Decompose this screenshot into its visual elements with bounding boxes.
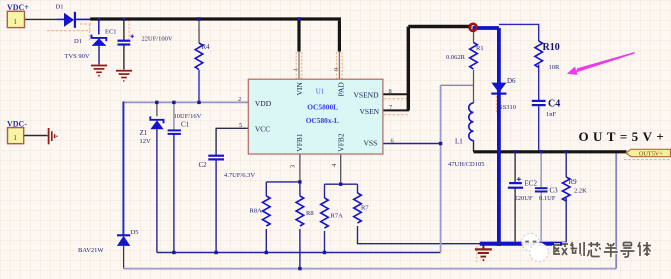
svg-text:10UF/16V: 10UF/16V [174, 113, 202, 120]
wire VSEND pin8 [383, 93, 409, 95]
svg-text:0.1UF: 0.1UF [539, 195, 556, 202]
wire thick drop to VIN pin [297, 19, 300, 52]
wire VFB1 pin stub [299, 154, 301, 182]
svg-text:VIN: VIN [295, 82, 304, 96]
wire port VDC+ to D1 [25, 18, 58, 20]
svg-text:VDC+: VDC+ [7, 3, 29, 12]
svg-text:3: 3 [290, 165, 297, 168]
capacitor EC1 [118, 40, 131, 42]
resistor R10 [535, 41, 543, 68]
svg-text:1: 1 [13, 133, 17, 142]
resistor R7 [354, 193, 362, 223]
svg-text:TVS 90V: TVS 90V [65, 53, 90, 60]
IC U1 body [248, 79, 383, 154]
ground TVS [91, 66, 107, 76]
svg-text:VFB1: VFB1 [295, 133, 304, 152]
wire thick blue gnd bus [480, 242, 567, 246]
wire VSEN pin7 [383, 109, 409, 111]
svg-text:VSS: VSS [364, 138, 378, 147]
inductor L1 [469, 103, 474, 141]
wire R7 top lead [357, 184, 359, 193]
svg-text:C1: C1 [181, 120, 190, 128]
resistor R9 [562, 177, 570, 201]
wire R9 bottom lead [565, 198, 567, 242]
compile mask dashes [47, 30, 91, 32]
wire C2 bottom lead [215, 159, 217, 252]
wire thick blue SW vertical [497, 28, 501, 244]
svg-text:9: 9 [333, 68, 340, 71]
wire R7A top lead [324, 184, 326, 198]
wire VCC pin5 to C2 [216, 128, 249, 155]
watermark text 欧创芯半导体 [554, 242, 651, 257]
resistor R7A [321, 198, 329, 228]
zener Z1 [150, 116, 163, 123]
wire EC2 bottom lead [514, 188, 516, 242]
diode D5 [117, 234, 130, 236]
diode D1 [64, 13, 74, 27]
wire feedback node1 horizontal [266, 181, 300, 183]
annotation arrow magenta [576, 52, 635, 73]
svg-text:C2: C2 [199, 161, 208, 169]
wire R4 bottom lead [198, 70, 200, 102]
svg-text:OUT=5V+: OUT=5V+ [579, 129, 669, 144]
svg-text:R1: R1 [476, 45, 484, 52]
svg-text:8: 8 [389, 88, 392, 95]
wire VDD rail horizontal [123, 101, 248, 103]
capacitor EC2 [509, 182, 522, 184]
svg-text:D1: D1 [56, 4, 64, 11]
svg-text:OC580x-L: OC580x-L [306, 116, 339, 125]
svg-text:D1: D1 [74, 38, 82, 45]
wire C4 bottom lead [538, 105, 540, 150]
wire L1 bottom lead [473, 141, 475, 152]
wire R8 bottom lead [299, 229, 301, 269]
wire R4 top lead [198, 21, 200, 43]
svg-text:VDD: VDD [255, 99, 272, 108]
wire R7 bottom lead to bus [358, 226, 481, 244]
svg-text:22UF/100V: 22UF/100V [142, 35, 173, 42]
wire OUT loop right vertical [615, 153, 617, 269]
wire TVS top lead [98, 21, 100, 35]
diode D6 [491, 83, 506, 93]
wire C1 top lead [173, 102, 175, 130]
svg-text:5: 5 [239, 122, 242, 129]
svg-text:U1: U1 [316, 87, 325, 95]
wire R7A bottom lead [324, 231, 326, 253]
svg-text:2: 2 [238, 96, 241, 103]
wire C3 top lead [540, 152, 542, 188]
wire VFB2 pin stub [340, 154, 342, 184]
svg-text:OUT5V+: OUT5V+ [639, 151, 663, 158]
wire thick top rail VIN [90, 17, 341, 20]
wire C3 bottom lead [540, 191, 542, 241]
wire thick blue donut to SW vertical [473, 26, 499, 30]
wire D1 cathode [76, 18, 91, 20]
svg-text:L1: L1 [455, 137, 463, 145]
wire EC1 bottom lead [123, 44, 125, 69]
svg-text:R10: R10 [543, 42, 560, 53]
svg-text:2.2K: 2.2K [574, 187, 587, 194]
port VDC+ [7, 11, 24, 27]
wire R1 bottom to VSS branch [441, 84, 474, 86]
wire R8A bottom lead [265, 229, 267, 253]
svg-text:47UH/CD105: 47UH/CD105 [448, 161, 484, 168]
svg-text:R7A: R7A [331, 212, 344, 219]
wire VSS pin6 [383, 143, 441, 145]
svg-text:R8A: R8A [250, 207, 263, 214]
wire R1 top lead [473, 31, 475, 43]
svg-text:4.7UF/6.3V: 4.7UF/6.3V [224, 172, 255, 179]
svg-text:SS310: SS310 [499, 104, 516, 111]
port VDC- [8, 128, 24, 144]
svg-text:0.062R: 0.062R [446, 54, 466, 61]
wire EC2 top lead [514, 152, 516, 183]
capacitor C2 [208, 155, 224, 157]
wire R8A top lead [265, 182, 267, 196]
wire C1 bottom lead [173, 134, 175, 253]
watermark logo circles [522, 234, 540, 252]
svg-text:D6: D6 [507, 77, 516, 85]
svg-text:R4: R4 [202, 43, 211, 51]
ground EC1 [116, 71, 132, 81]
svg-text:Z1: Z1 [140, 129, 148, 137]
wire VSS vertical lavender [440, 85, 442, 252]
wire thick OUT rail [474, 150, 627, 153]
wire OUT loop bottom [124, 268, 617, 270]
svg-text:VSEND: VSEND [354, 90, 380, 99]
wire thick vertical pin7-8 to top [407, 27, 410, 111]
port OUT5V+ [626, 149, 671, 156]
capacitor C3 [535, 187, 548, 189]
resistor R8 [296, 196, 304, 226]
resistor R1 [470, 43, 478, 70]
wire thick top to donut [408, 25, 471, 28]
svg-text:OC5800L: OC5800L [307, 102, 338, 111]
svg-text:220UF: 220UF [515, 195, 533, 202]
wire R1 bottom lead / L1 top [473, 70, 475, 103]
svg-text:BAV21W: BAV21W [78, 247, 104, 254]
capacitor C1 [168, 129, 181, 131]
wire EC1 top lead [123, 21, 125, 41]
svg-text:1nF: 1nF [546, 111, 557, 118]
svg-text:C3: C3 [550, 186, 559, 194]
wire R10 branch top [499, 24, 539, 41]
wire D1 anode [58, 18, 65, 20]
svg-text:12V: 12V [140, 138, 152, 145]
wire D5 bottom lead [123, 246, 125, 269]
wire gnd net line [157, 252, 441, 254]
donut marker [470, 24, 477, 31]
TVS diode D1 [92, 35, 107, 42]
wire VIN pin stub [298, 52, 300, 80]
wire R9 top lead [565, 152, 567, 177]
wire R8 top lead [299, 182, 301, 196]
wire PAD pin stub [338, 52, 340, 80]
ground bus [475, 246, 492, 261]
svg-text:VFB2: VFB2 [337, 133, 346, 152]
wire Z1 top lead [156, 102, 158, 116]
svg-text:10R: 10R [549, 64, 561, 71]
ground VDC- (right pointing) [49, 128, 57, 144]
svg-text:PAD: PAD [337, 82, 346, 97]
wire feedback node2 horizontal [325, 183, 358, 185]
svg-text:VDC-: VDC- [7, 119, 27, 128]
svg-text:C4: C4 [548, 98, 560, 109]
svg-text:1: 1 [13, 17, 17, 26]
svg-text:1: 1 [293, 68, 300, 71]
svg-text:VCC: VCC [255, 125, 270, 134]
wire left rail vertical [122, 102, 124, 236]
wire VDC- port to gnd [24, 135, 48, 137]
svg-text:VSEN: VSEN [360, 107, 380, 116]
svg-text:R7: R7 [361, 204, 369, 211]
svg-text:R9: R9 [569, 178, 578, 186]
resistor R8A [262, 196, 270, 226]
resistor R4 [195, 43, 203, 70]
wire Z1 bottom lead to gnd line [156, 129, 158, 252]
capacitor C4 [532, 100, 546, 102]
wire TVS bottom lead [98, 46, 100, 65]
wire R10 to C4 [538, 65, 540, 101]
svg-text:R8: R8 [306, 210, 314, 217]
svg-text:EC2: EC2 [525, 179, 538, 187]
svg-text:D5: D5 [131, 229, 139, 236]
wire thick drop to PAD pin [338, 21, 341, 52]
svg-text:EC1: EC1 [105, 28, 117, 35]
